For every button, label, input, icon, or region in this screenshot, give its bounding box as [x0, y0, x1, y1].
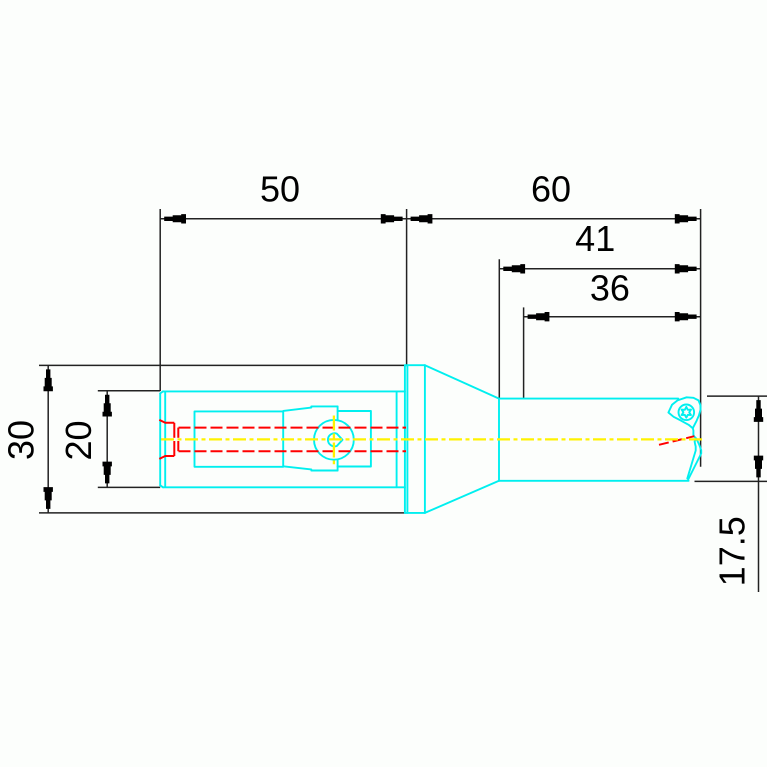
- svg-text:30: 30: [0, 420, 41, 460]
- svg-text:41: 41: [575, 218, 615, 259]
- svg-text:50: 50: [260, 169, 300, 210]
- svg-text:60: 60: [531, 169, 571, 210]
- svg-text:36: 36: [590, 267, 630, 308]
- svg-text:20: 20: [58, 420, 99, 460]
- svg-text:17.5: 17.5: [712, 516, 753, 586]
